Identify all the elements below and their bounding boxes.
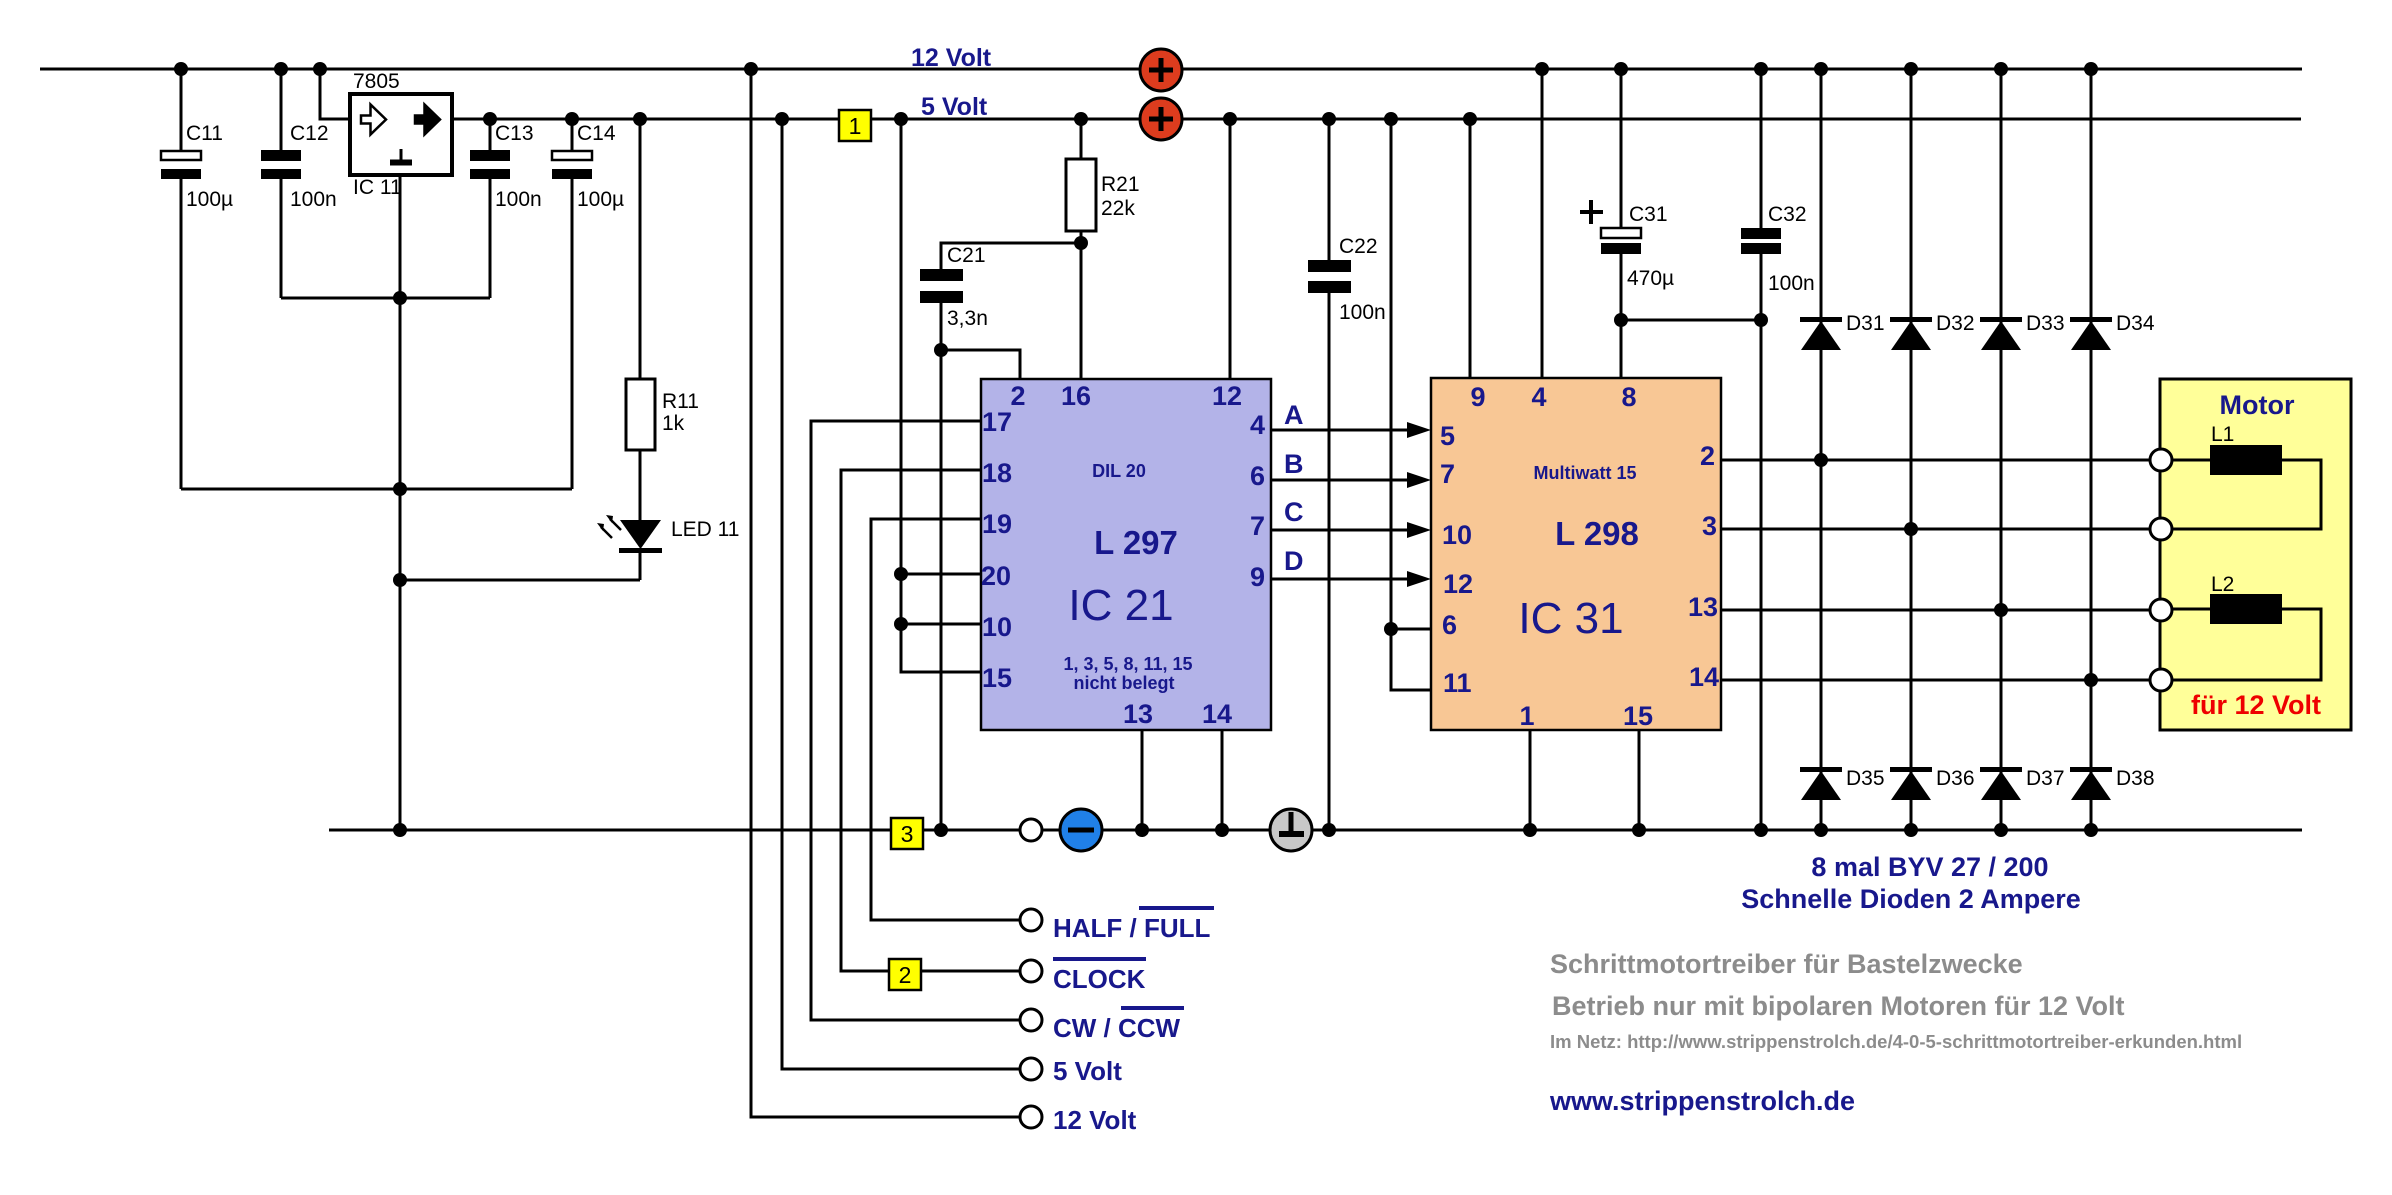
resistor R21 22k bbox=[1066, 119, 1140, 379]
node junction 901/5V bbox=[894, 112, 908, 126]
svg-text:10: 10 bbox=[982, 612, 1012, 642]
node junction D38/gnd bbox=[2084, 823, 2098, 837]
diode column D32/D36 (x=1911) bbox=[1910, 69, 1913, 830]
svg-text:C11: C11 bbox=[186, 122, 223, 145]
svg-text:D: D bbox=[1284, 546, 1304, 576]
node junction D34/12V bbox=[2084, 62, 2098, 76]
node junction C31/12V bbox=[1614, 62, 1628, 76]
diode D32 bbox=[1890, 312, 1975, 350]
svg-text:C32: C32 bbox=[1768, 203, 1807, 226]
node junction phase2/D31 bbox=[1814, 453, 1828, 467]
diode column D34/D38 (x=2091) bbox=[2090, 69, 2093, 830]
svg-text:6: 6 bbox=[1250, 461, 1265, 491]
svg-text:10: 10 bbox=[1442, 520, 1472, 550]
wire pin20 stub bbox=[901, 573, 981, 576]
svg-text:Multiwatt 15: Multiwatt 15 bbox=[1533, 463, 1636, 483]
capacitor C22 100n bbox=[1308, 119, 1386, 830]
node junction D36/gnd bbox=[1904, 823, 1918, 837]
svg-text:470µ: 470µ bbox=[1627, 267, 1674, 290]
wire C12-C13 ground link bbox=[281, 297, 490, 300]
diode D38 bbox=[2070, 767, 2155, 800]
svg-text:100µ: 100µ bbox=[577, 188, 624, 211]
svg-text:22k: 22k bbox=[1101, 197, 1135, 220]
svg-text:Betrieb nur mit bipolaren Moto: Betrieb nur mit bipolaren Motoren für 12… bbox=[1552, 991, 2125, 1021]
node junction D37/gnd bbox=[1994, 823, 2008, 837]
node junction D35/gnd bbox=[1814, 823, 1828, 837]
connector + 5V plus terminal bbox=[1140, 98, 1182, 140]
svg-text:LED 11: LED 11 bbox=[671, 518, 740, 541]
wire IC31 pin15 riser bbox=[1638, 730, 1641, 830]
diode column D31/D35 (x=1821) bbox=[1820, 69, 1823, 830]
node junction C11/12V bbox=[174, 62, 188, 76]
node junction C14/5V bbox=[565, 112, 579, 126]
svg-text:HALF / FULL: HALF / FULL bbox=[1053, 913, 1211, 943]
node motor terminal 14 bbox=[2150, 669, 2172, 691]
capacitor C31 470u electrolytic bbox=[1580, 69, 1674, 378]
wire pin18 to CLOCK connector bbox=[841, 470, 981, 971]
svg-text:12 Volt: 12 Volt bbox=[911, 44, 992, 72]
svg-text:6: 6 bbox=[1442, 610, 1457, 640]
svg-text:A: A bbox=[1284, 400, 1304, 430]
wire IC31 pin3 to motor bbox=[1721, 528, 2150, 531]
connector 5 Volt bbox=[1020, 1056, 1122, 1086]
node junction pin15/gnd bbox=[1632, 823, 1646, 837]
connector + 12V plus terminal bbox=[1140, 49, 1182, 91]
svg-text:L 297: L 297 bbox=[1094, 524, 1178, 561]
node junction 782/5V bbox=[775, 112, 789, 126]
diode column D33/D37 (x=2001) bbox=[2000, 69, 2003, 830]
svg-text:D33: D33 bbox=[2026, 312, 2065, 335]
svg-text:15: 15 bbox=[982, 663, 1012, 693]
connector 2 (yellow square) bbox=[889, 959, 1020, 990]
node junction phase13/D33 bbox=[1994, 603, 2008, 617]
svg-text:Im Netz: http://www.strippenst: Im Netz: http://www.strippenstrolch.de/4… bbox=[1550, 1031, 2242, 1052]
node junction at (400,580) bbox=[393, 573, 407, 587]
wire IC21 pin16 riser is R21 line (drawn) ; pin12 riser bbox=[1229, 119, 1232, 379]
svg-text:16: 16 bbox=[1061, 381, 1091, 411]
diode D31 bbox=[1800, 312, 1885, 350]
wire enable riser to pins 6/11 (x=1391) bbox=[1391, 119, 1431, 690]
wire LED to ground riser bbox=[400, 579, 640, 582]
capacitor C13 (100n) bbox=[470, 119, 542, 298]
wire 7805 ground riser bbox=[399, 174, 402, 830]
svg-text:C13: C13 bbox=[495, 122, 534, 145]
wire 5V rail bbox=[451, 118, 2301, 121]
svg-text:4: 4 bbox=[1250, 410, 1265, 440]
svg-text:L 298: L 298 bbox=[1555, 515, 1639, 552]
wire 12V rail bbox=[40, 68, 2302, 71]
node junction C32/12V bbox=[1754, 62, 1768, 76]
node junction input/12V bbox=[313, 62, 327, 76]
diode D36 bbox=[1890, 767, 1975, 800]
svg-text:CW / CCW: CW / CCW bbox=[1053, 1013, 1181, 1043]
connector CW/CCW bbox=[1020, 1008, 1184, 1043]
connector HALF/FULL bbox=[1020, 908, 1214, 943]
svg-text:7805: 7805 bbox=[353, 70, 400, 93]
node motor terminal 13 bbox=[2150, 599, 2172, 621]
wire C31-C32 link bbox=[1621, 319, 1761, 322]
node junction C22/5V bbox=[1322, 112, 1336, 126]
node junction C13/5V bbox=[483, 112, 497, 126]
svg-text:IC 21: IC 21 bbox=[1068, 581, 1173, 630]
svg-text:1k: 1k bbox=[662, 412, 685, 435]
wire phase D bbox=[1271, 546, 1431, 587]
svg-text:1: 1 bbox=[1519, 701, 1534, 731]
node junction C32/gnd bbox=[1754, 823, 1768, 837]
svg-text:5 Volt: 5 Volt bbox=[1053, 1056, 1122, 1086]
wire C11-C14 ground link bbox=[181, 488, 572, 491]
wire pin19 to HALF/FULL connector bbox=[871, 519, 1020, 920]
node junction C12/12V bbox=[274, 62, 288, 76]
svg-text:19: 19 bbox=[982, 509, 1012, 539]
wire pin6 stub bbox=[1391, 628, 1431, 631]
wire C21 to IC21 pin2 bbox=[941, 350, 1020, 379]
wire ground rail bbox=[329, 829, 2302, 832]
svg-text:D36: D36 bbox=[1936, 767, 1975, 790]
svg-text:IC 11: IC 11 bbox=[353, 176, 402, 199]
svg-text:3: 3 bbox=[901, 821, 914, 847]
node junction phase3/D32 bbox=[1904, 522, 1918, 536]
svg-text:D31: D31 bbox=[1846, 312, 1885, 335]
wire IC31 pin9 riser (5V) bbox=[1469, 119, 1472, 378]
svg-text:C14: C14 bbox=[577, 122, 616, 145]
node junction C21 gnd bbox=[934, 823, 948, 837]
svg-text:IC 31: IC 31 bbox=[1518, 594, 1623, 643]
IC U31 L298 body bbox=[1431, 378, 1721, 731]
svg-text:8: 8 bbox=[1621, 382, 1636, 412]
node junction pin13/gnd bbox=[1135, 823, 1149, 837]
inductor L2 bbox=[2171, 573, 2321, 680]
svg-text:3,3n: 3,3n bbox=[947, 307, 988, 330]
svg-text:5 Volt: 5 Volt bbox=[921, 93, 988, 121]
node motor terminal 2 bbox=[2150, 449, 2172, 471]
capacitor C12 (100n) bbox=[261, 69, 337, 298]
svg-text:3: 3 bbox=[1702, 511, 1717, 541]
svg-text:12: 12 bbox=[1443, 569, 1473, 599]
svg-text:für 12 Volt: für 12 Volt bbox=[2191, 690, 2321, 720]
node junction R21 bottom bbox=[1074, 236, 1088, 250]
diode D34 bbox=[2070, 312, 2155, 350]
svg-text:15: 15 bbox=[1623, 701, 1653, 731]
node junction C31 bottom bbox=[1614, 313, 1628, 327]
node junction pin4/12V bbox=[1535, 62, 1549, 76]
svg-text:7: 7 bbox=[1250, 511, 1265, 541]
node junction pin9/5V bbox=[1463, 112, 1477, 126]
svg-text:C: C bbox=[1284, 497, 1304, 527]
diode D37 bbox=[1980, 767, 2065, 800]
svg-text:CLOCK: CLOCK bbox=[1053, 964, 1146, 994]
svg-text:Schrittmotortreiber für Bastel: Schrittmotortreiber für Bastelzwecke bbox=[1550, 949, 2023, 979]
svg-text:14: 14 bbox=[1689, 662, 1719, 692]
node junction pin1/gnd bbox=[1523, 823, 1537, 837]
node junction C22/gnd bbox=[1322, 823, 1336, 837]
node junction at (941,350) bbox=[934, 343, 948, 357]
ground symbol terminal bbox=[1270, 809, 1312, 851]
connector 1 (yellow square on 5V rail) bbox=[839, 110, 871, 141]
inductor L1 bbox=[2171, 423, 2321, 529]
node junction phase14/D34 bbox=[2084, 673, 2098, 687]
node junction pin6 bbox=[1384, 622, 1398, 636]
wire phase B bbox=[1271, 449, 1431, 488]
svg-text:C21: C21 bbox=[947, 244, 986, 267]
svg-text:2: 2 bbox=[899, 962, 912, 988]
svg-text:100n: 100n bbox=[1339, 301, 1386, 324]
connector minus terminal bbox=[1060, 809, 1102, 851]
svg-text:5: 5 bbox=[1440, 421, 1455, 451]
svg-text:B: B bbox=[1284, 449, 1304, 479]
node junction pin20 bbox=[894, 567, 908, 581]
wire 7805 input stub bbox=[320, 69, 351, 119]
svg-text:4: 4 bbox=[1531, 382, 1546, 412]
svg-text:100n: 100n bbox=[495, 188, 542, 211]
svg-text:1, 3, 5, 8, 11, 15: 1, 3, 5, 8, 11, 15 bbox=[1063, 654, 1192, 674]
svg-text:12 Volt: 12 Volt bbox=[1053, 1105, 1137, 1135]
svg-text:C31: C31 bbox=[1629, 203, 1668, 226]
svg-text:L1: L1 bbox=[2211, 423, 2234, 446]
svg-text:8 mal BYV 27 / 200: 8 mal BYV 27 / 200 bbox=[1811, 852, 2048, 882]
motor box bbox=[2160, 379, 2351, 730]
wire IC31 pin4 riser (12V) bbox=[1541, 69, 1544, 378]
svg-text:100n: 100n bbox=[290, 188, 337, 211]
resistor R11 1k bbox=[626, 119, 699, 450]
svg-text:C12: C12 bbox=[290, 122, 329, 145]
regulator IC11 7805 bbox=[350, 70, 452, 199]
capacitor C11 (100u electrolytic) bbox=[161, 69, 233, 489]
svg-text:14: 14 bbox=[1202, 699, 1232, 729]
svg-text:100n: 100n bbox=[1768, 272, 1815, 295]
node junction D33/12V bbox=[1994, 62, 2008, 76]
svg-text:DIL 20: DIL 20 bbox=[1092, 461, 1146, 481]
node junction R11/5V bbox=[633, 112, 647, 126]
svg-text:Motor: Motor bbox=[2220, 390, 2295, 420]
diode D35 bbox=[1800, 767, 1885, 800]
svg-text:R21: R21 bbox=[1101, 173, 1140, 196]
node junction at (400,489) bbox=[393, 482, 407, 496]
svg-text:nicht belegt: nicht belegt bbox=[1073, 673, 1174, 693]
wire 5 Volt drop (x=782) bbox=[782, 119, 1020, 1069]
connector 3 (yellow square on gnd rail) bbox=[891, 818, 923, 849]
note diodes type bbox=[1741, 852, 2081, 914]
node junction pin14/gnd bbox=[1215, 823, 1229, 837]
node open terminal on gnd rail bbox=[1020, 819, 1042, 841]
svg-text:13: 13 bbox=[1688, 592, 1718, 622]
wire 12 Volt drop (x=751) bbox=[751, 69, 1020, 1117]
wire IC31 pin2 to motor bbox=[1721, 459, 2150, 462]
svg-text:D38: D38 bbox=[2116, 767, 2155, 790]
wire pin17 to CW/CCW connector bbox=[811, 421, 1020, 1020]
svg-text:9: 9 bbox=[1470, 382, 1485, 412]
svg-text:1: 1 bbox=[849, 113, 862, 139]
svg-text:11: 11 bbox=[1443, 668, 1472, 698]
capacitor C32 100n bbox=[1741, 69, 1815, 830]
svg-text:20: 20 bbox=[981, 561, 1011, 591]
svg-text:R11: R11 bbox=[662, 390, 699, 413]
node junction at (400,298) bbox=[393, 291, 407, 305]
diode D33 bbox=[1980, 312, 2065, 350]
node junction C32 link bbox=[1754, 313, 1768, 327]
LED LED11 bbox=[597, 450, 740, 580]
wire phase C bbox=[1271, 497, 1431, 538]
wire IC31 pin13 to motor bbox=[1721, 609, 2150, 612]
capacitor C14 (100u electrolytic) bbox=[552, 119, 624, 489]
connector 12 Volt bbox=[1020, 1105, 1137, 1135]
svg-text:www.strippenstrolch.de: www.strippenstrolch.de bbox=[1549, 1086, 1855, 1116]
capacitor C21 3,3n bbox=[920, 243, 1081, 830]
svg-text:9: 9 bbox=[1250, 562, 1265, 592]
node junction pin12/5V bbox=[1223, 112, 1237, 126]
svg-text:D37: D37 bbox=[2026, 767, 2065, 790]
svg-text:7: 7 bbox=[1440, 459, 1455, 489]
wire pin10 stub bbox=[901, 623, 981, 626]
svg-text:C22: C22 bbox=[1339, 235, 1378, 258]
svg-text:17: 17 bbox=[982, 407, 1012, 437]
svg-text:D35: D35 bbox=[1846, 767, 1885, 790]
wire 5V drop to pins 20/10/15 (x=901) bbox=[901, 119, 981, 672]
IC U21 L297 body bbox=[981, 379, 1271, 730]
svg-text:Schnelle Dioden 2 Ampere: Schnelle Dioden 2 Ampere bbox=[1741, 884, 2081, 914]
svg-text:18: 18 bbox=[982, 458, 1012, 488]
wire phase A (IC21 pin4 to IC31 pin5) bbox=[1271, 400, 1431, 438]
node junction D31/12V bbox=[1814, 62, 1828, 76]
svg-text:L2: L2 bbox=[2211, 573, 2234, 596]
node junction gnd rail bbox=[393, 823, 407, 837]
wire IC21 pin14 sense riser bbox=[1221, 730, 1224, 830]
node junction D32/12V bbox=[1904, 62, 1918, 76]
connector CLOCK bbox=[1020, 959, 1146, 994]
svg-text:2: 2 bbox=[1700, 441, 1715, 471]
svg-text:2: 2 bbox=[1010, 381, 1025, 411]
node motor terminal 3 bbox=[2150, 518, 2172, 540]
node junction 1391/5V bbox=[1384, 112, 1398, 126]
svg-text:100µ: 100µ bbox=[186, 188, 233, 211]
wire IC31 pin14 to motor bbox=[1721, 679, 2150, 682]
node junction R21/5V bbox=[1074, 112, 1088, 126]
svg-text:13: 13 bbox=[1123, 699, 1153, 729]
svg-text:D32: D32 bbox=[1936, 312, 1975, 335]
node junction pin10 bbox=[894, 617, 908, 631]
wire IC21 pin13 sense riser bbox=[1141, 730, 1144, 830]
wire IC31 pin1 riser bbox=[1529, 730, 1532, 830]
svg-text:12: 12 bbox=[1212, 381, 1242, 411]
node junction 751/12V bbox=[744, 62, 758, 76]
svg-text:D34: D34 bbox=[2116, 312, 2155, 335]
